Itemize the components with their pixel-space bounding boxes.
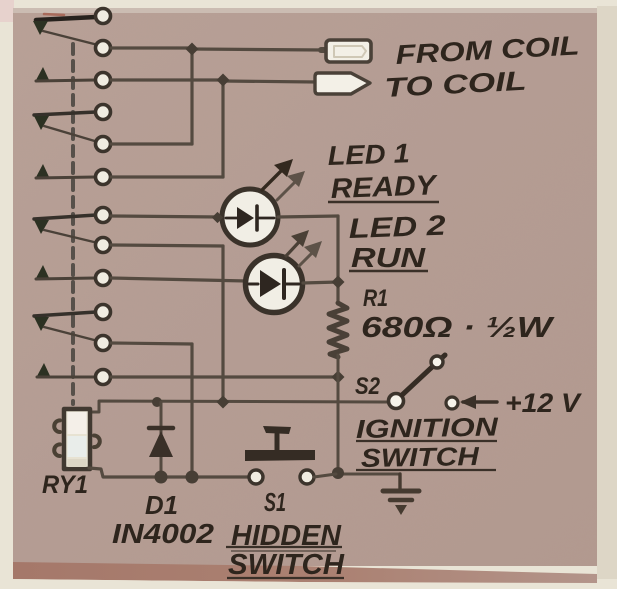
relay top wire (coil feed) [90, 401, 395, 412]
wire bottom to ground [338, 473, 400, 476]
common 3 arrow [35, 265, 50, 280]
contact circle C9 [96, 271, 111, 286]
ground symbol [383, 491, 419, 515]
relay pole 4 throw wire [44, 327, 98, 341]
svg-text:READY: READY [330, 169, 439, 204]
relay pole 3 armature arrow [34, 220, 49, 234]
contact circle C12 [96, 370, 111, 385]
contact circle C1 [96, 9, 111, 24]
contact circle C5 [96, 137, 111, 152]
common 1 arrow [35, 67, 50, 82]
switch S2 [389, 355, 446, 409]
relay pole 1 armature wire [36, 17, 96, 20]
relay pole 1 throw wire [43, 31, 98, 45]
common 4 wire [37, 376, 95, 379]
junction blob C11 bottom [186, 471, 199, 484]
svg-text:S1: S1 [264, 487, 286, 517]
wire junction to TO COIL connector [223, 81, 316, 82]
svg-text:RY1: RY1 [42, 471, 88, 499]
svg-text:S2: S2 [355, 373, 381, 400]
common 2 arrow [35, 164, 50, 179]
svg-text:LED 2: LED 2 [348, 210, 447, 244]
common 4 arrow [36, 363, 51, 378]
svg-text:IN4002: IN4002 [112, 518, 214, 549]
relay bottom wire [89, 468, 249, 477]
svg-text:SWITCH: SWITCH [228, 549, 345, 581]
wire C3 to junction [111, 78, 223, 81]
wire R1 bottom vertical [337, 355, 340, 473]
wire C2 to junction [111, 46, 192, 49]
junction blob bottom [332, 467, 344, 479]
contact circle C8 [96, 238, 111, 253]
contact circle C3 [96, 73, 111, 88]
dashed mechanical linkage line [71, 44, 75, 404]
svg-text:D1: D1 [145, 490, 178, 520]
wire C11 right [111, 343, 192, 344]
wire vertical junction to C5 [190, 48, 193, 144]
relay pole 3 armature wire [34, 215, 96, 219]
wire vertical junction to C6 [221, 80, 224, 177]
wire LED1 right [278, 216, 338, 217]
relay pole 2 throw wire [44, 126, 98, 142]
relay pole 2 armature arrow [34, 116, 49, 130]
D1 diode [149, 402, 173, 477]
ground stem [398, 474, 401, 489]
FROM COIL connector [321, 40, 371, 62]
junction blob D1 bottom [155, 471, 168, 484]
+12V terminal [446, 397, 458, 409]
relay pole 4 armature wire [34, 312, 96, 316]
bottom torn band [13, 562, 597, 583]
red scan streak [44, 14, 64, 15]
wire C6 right [111, 175, 223, 178]
D1 junction dot [152, 397, 162, 407]
svg-text:RUN: RUN [351, 242, 426, 273]
relay pole 4 armature arrow [34, 317, 49, 331]
wire C9 to LED2 [111, 278, 247, 281]
wire C7 to LED1 [111, 216, 220, 217]
LED1 emission arrows [262, 159, 305, 200]
wire junction to FROM COIL connector [192, 49, 323, 50]
relay pole 2 armature wire [34, 112, 96, 115]
contact circle C6 [96, 170, 111, 185]
common 2 wire [36, 177, 95, 178]
common 1 wire [36, 80, 95, 81]
contact circle C4 [96, 105, 111, 120]
svg-text:IGNITION: IGNITION [356, 411, 500, 443]
junction diamond B [216, 73, 229, 86]
resistor R1 zigzag [329, 303, 347, 357]
wire C11 vertical down [190, 344, 193, 476]
wire vertical LED chain down to R1 [336, 216, 339, 304]
relay pole 3 throw wire [44, 230, 98, 243]
contact circle C10 [96, 305, 111, 320]
relay pole 1 armature arrow [33, 21, 48, 35]
contact circle C2 [96, 41, 111, 56]
wire C8 right [111, 245, 223, 246]
svg-text:R1: R1 [363, 285, 388, 312]
svg-text:+12 V: +12 V [505, 388, 582, 418]
common 3 wire [36, 278, 95, 279]
svg-text:680Ω · ½W: 680Ω · ½W [361, 312, 555, 344]
LED1 [212, 189, 278, 245]
wire C8 vertical down [221, 246, 224, 400]
wire C12 to R1 foot [111, 375, 336, 378]
svg-text:SWITCH: SWITCH [361, 441, 481, 473]
junction diamond A [185, 42, 198, 55]
wire S1 right to ground wire [314, 474, 336, 477]
contact circle C7 [96, 208, 111, 223]
junction diamond LED2 [331, 275, 344, 288]
pushbutton S1 [245, 426, 315, 484]
junction diamond C8-wire [216, 395, 229, 408]
wire C5 right [111, 142, 192, 145]
relay RY1 coil box [54, 409, 100, 469]
LED2 emission arrows [286, 230, 322, 266]
svg-text:LED 1: LED 1 [327, 138, 410, 171]
+12V arrow [463, 400, 497, 403]
contact circle C11 [96, 336, 111, 351]
LED2 [246, 256, 303, 313]
junction diamond on R1 foot [331, 370, 344, 383]
TO COIL connector [315, 73, 370, 94]
wire LED2 right [303, 282, 338, 283]
